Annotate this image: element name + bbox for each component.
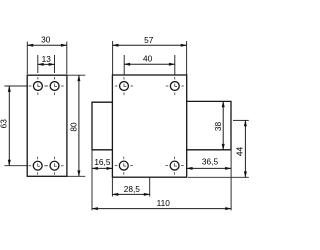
right view right flange [187, 101, 231, 149]
hole left-view bottom-right [45, 157, 63, 175]
left view outline [27, 75, 67, 176]
svg-text:16,5: 16,5 [94, 157, 111, 167]
hole right-view bottom-right [166, 157, 184, 175]
svg-text:110: 110 [157, 198, 171, 208]
svg-text:80: 80 [69, 122, 79, 132]
dimension 110 [92, 150, 231, 211]
hole left-view top-left [29, 77, 47, 95]
hole left-view bottom-left [29, 157, 47, 175]
svg-text:30: 30 [41, 35, 51, 45]
svg-text:40: 40 [143, 54, 153, 64]
svg-text:13: 13 [42, 54, 52, 64]
dimension 80 [67, 75, 85, 176]
hole right-view bottom-left [115, 157, 133, 175]
dimension 40 [124, 54, 175, 75]
hole left-view top-right [46, 77, 64, 95]
svg-text:36,5: 36,5 [202, 157, 219, 167]
dimension 44 [188, 120, 249, 177]
svg-text:44: 44 [235, 147, 245, 157]
dimension 16,5 [92, 150, 112, 211]
svg-text:28,5: 28,5 [124, 184, 141, 194]
right view main body outline [112, 75, 186, 177]
dimension 63 [0, 86, 28, 166]
svg-text:63: 63 [0, 119, 8, 129]
right view left flange [92, 102, 112, 150]
svg-text:57: 57 [144, 35, 154, 45]
dimension 13 [38, 54, 55, 73]
hole right-view top-right [166, 77, 184, 95]
dimension 30 [27, 35, 67, 75]
dimension 57 [113, 35, 187, 75]
dimension 38 [213, 101, 223, 149]
dimension 28,5 [112, 177, 149, 196]
dimension 36,5 [187, 157, 231, 169]
hole right-view top-left [115, 77, 133, 95]
svg-text:38: 38 [213, 122, 223, 132]
